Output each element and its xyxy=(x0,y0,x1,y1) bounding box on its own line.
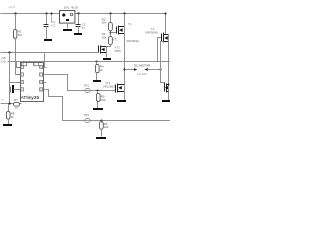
pin numbers xyxy=(21,63,42,91)
svg-text:12B: 12B xyxy=(1,60,6,64)
circle inside DA1 xyxy=(70,13,73,16)
wire IC pin to X1 connector xyxy=(47,75,85,91)
node junction dot R2/R3 xyxy=(110,31,112,37)
pin number boxes left xyxy=(20,65,23,91)
node junction dot motor left xyxy=(123,68,125,70)
wire top rail right corner down to VT4 drain xyxy=(166,14,169,35)
wire left vertical from +5V dot down to bottom rail xyxy=(9,53,11,104)
IC right pin stubs xyxy=(44,68,47,90)
svg-text:10k: 10k xyxy=(104,125,109,129)
capacitor C3 plate thick xyxy=(12,85,14,93)
svg-text:DC MOTOR: DC MOTOR xyxy=(134,63,151,67)
pin number boxes right xyxy=(40,65,43,91)
svg-text:1M: 1M xyxy=(102,21,107,25)
diode inside DA1 xyxy=(62,13,66,17)
wire DA1 gnd stem xyxy=(67,23,69,29)
ground VT5 xyxy=(162,100,170,102)
ground R6 xyxy=(96,137,106,139)
wire VT3 source to ground xyxy=(124,85,126,101)
capacitor C1 wire xyxy=(46,14,48,25)
ground DA1 xyxy=(63,29,72,31)
ground R5 xyxy=(93,108,103,110)
svg-text:47: 47 xyxy=(82,26,86,30)
top pin stubs xyxy=(24,62,26,63)
connector X2 xyxy=(85,118,91,122)
svg-text:0.1: 0.1 xyxy=(52,23,56,27)
resistor R5 xyxy=(97,91,99,94)
wire bottom signal line y120 xyxy=(91,120,171,122)
svg-text:VT1: VT1 xyxy=(113,37,119,41)
wire bottom-left rail y104 xyxy=(1,103,14,105)
node junction dot rail/C1 xyxy=(45,12,47,14)
transistor VT1 xyxy=(117,26,125,35)
svg-text:+12 B: +12 B xyxy=(8,5,15,9)
svg-text:XP2: XP2 xyxy=(84,113,90,117)
mark inside DA1 xyxy=(66,19,69,21)
svg-text:1M: 1M xyxy=(18,33,23,37)
node junction dot rail/R2 xyxy=(109,12,111,14)
resistor R1 xyxy=(14,30,17,39)
wire R1 bottom to IC pin2 xyxy=(16,38,21,75)
resistor R6 xyxy=(101,121,103,123)
node junction dot mid rail R4 xyxy=(96,61,98,63)
node junction dot rail/VT1 drain xyxy=(123,12,125,14)
node junction dot +5V left xyxy=(8,51,10,53)
node junction dot motor right xyxy=(159,68,161,70)
svg-text:(IRF9540): (IRF9540) xyxy=(146,31,159,35)
svg-text:ATtiny25: ATtiny25 xyxy=(21,95,40,101)
ground R8 xyxy=(3,124,12,126)
svg-text:nw 100: nw 100 xyxy=(138,72,147,76)
svg-text:T1: T1 xyxy=(128,22,132,26)
ground C1 xyxy=(44,39,52,41)
wire VT1 bus vertical xyxy=(124,14,126,85)
node junction dot rail end xyxy=(165,13,167,15)
svg-text:XP1: XP1 xyxy=(84,83,90,87)
node junction dot rail/R1 xyxy=(14,12,16,14)
capacitor C2 plates xyxy=(76,24,81,26)
svg-text:DA1 78L05: DA1 78L05 xyxy=(64,6,78,10)
node junction dot X2 line xyxy=(101,120,103,122)
wire IC pin8 vertical to rails xyxy=(44,53,46,68)
pin box top 2 xyxy=(34,63,39,66)
svg-text:R7: R7 xyxy=(14,98,18,102)
wire R1 branch vertical xyxy=(15,14,17,30)
resistor R4 xyxy=(96,62,98,65)
svg-text:1k: 1k xyxy=(100,68,104,72)
node junction dot rail/C2 xyxy=(77,12,79,14)
resistor R3 xyxy=(109,37,113,45)
capacitor C2 wire xyxy=(78,14,80,25)
resistor R2 xyxy=(109,23,113,31)
wire VT4 source to motor and VT5 gate xyxy=(161,42,165,83)
svg-text:10: 10 xyxy=(15,106,19,110)
svg-text:1k: 1k xyxy=(11,115,15,119)
wire R3 to VT2 drain xyxy=(107,45,111,47)
wire VT4/VT5 drain bus xyxy=(168,35,170,101)
wire mid rail y61 xyxy=(8,61,171,63)
IC U1 ATtiny25 box xyxy=(21,63,44,102)
wire VT2 source to ground xyxy=(106,47,108,58)
pin box top 1 xyxy=(22,63,27,66)
wire IC pin to X2 connector xyxy=(47,90,85,121)
connector X1 xyxy=(85,88,91,92)
ground VT3 xyxy=(117,100,126,102)
wire C3 to IC pin4 xyxy=(14,89,21,91)
wire +12V top rail xyxy=(1,13,166,15)
ground C2 xyxy=(74,33,82,35)
IC left pin stubs and boxes xyxy=(17,68,21,90)
transistor VT2 xyxy=(99,46,107,54)
capacitor C1 plates xyxy=(44,24,49,26)
wire +5V rail y52 xyxy=(1,52,99,54)
ground R4 xyxy=(93,80,101,82)
svg-text:10k: 10k xyxy=(102,35,107,39)
resistor R7 horizontal on bottom-left rail xyxy=(14,103,20,107)
svg-text:10k: 10k xyxy=(101,98,106,102)
resistor R8 bottom left to ground xyxy=(8,104,10,112)
wire motor line with plug arrows xyxy=(125,69,135,71)
svg-text:(IRL2505): (IRL2505) xyxy=(103,85,116,89)
regulator DA1 box xyxy=(60,11,75,24)
resistor R2 chain vertical from rail xyxy=(110,14,112,23)
wire IC pin1 from mid rail xyxy=(17,62,21,68)
capacitor C3 plate thin xyxy=(10,87,12,93)
svg-text:2505: 2505 xyxy=(115,49,122,53)
svg-text:+: + xyxy=(2,98,4,102)
wire C1b faint stub xyxy=(51,14,53,23)
node junction dot gate R5 xyxy=(97,90,99,92)
ground VT2 xyxy=(103,58,111,60)
wire to VT1 gate xyxy=(111,32,117,34)
wire X1 to VT3 gate xyxy=(91,90,116,92)
svg-text:(IRF9540): (IRF9540) xyxy=(127,39,140,43)
transistor VT5 bottom right xyxy=(165,83,169,93)
wire VT4 gate feed xyxy=(158,38,162,62)
node junction dot bottom-left xyxy=(8,102,10,104)
wire IC pin3 from left vertical xyxy=(10,82,21,84)
